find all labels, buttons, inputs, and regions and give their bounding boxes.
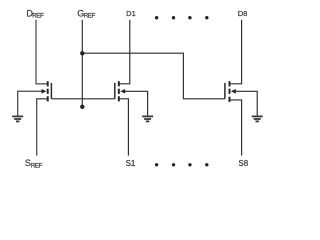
svg-text:D8: D8 — [238, 9, 248, 18]
svg-text:S1: S1 — [126, 159, 136, 168]
svg-text:REF: REF — [84, 13, 96, 20]
svg-text:D1: D1 — [126, 9, 136, 18]
svg-text:S8: S8 — [238, 159, 248, 168]
svg-text:REF: REF — [31, 162, 43, 169]
svg-text:REF: REF — [32, 13, 44, 20]
